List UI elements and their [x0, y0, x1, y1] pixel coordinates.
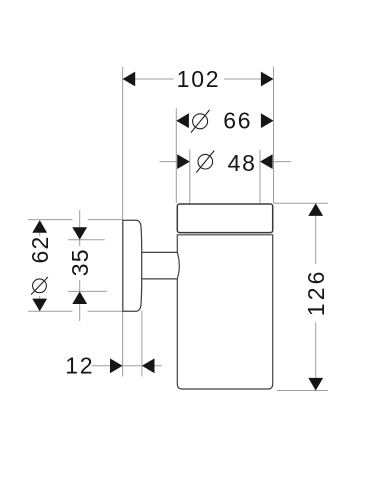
cup holder ring [177, 204, 272, 233]
extension line 102/66 right [273, 67, 275, 203]
extension line 48 left [189, 150, 191, 203]
extension line 126 bottom [277, 390, 328, 392]
dimension 12 [65, 311, 162, 379]
svg-text:66: 66 [223, 108, 252, 134]
dimension diameter 48 [160, 150, 292, 176]
dimension diameter 62 [27, 220, 53, 311]
svg-text:102: 102 [177, 66, 221, 92]
svg-text:126: 126 [303, 268, 329, 316]
extension line 66 left [175, 108, 177, 203]
svg-text:62: 62 [27, 236, 53, 264]
wall plate [123, 220, 142, 311]
svg-text:12: 12 [65, 353, 94, 379]
extension line 62 bottom [28, 310, 122, 312]
extension line 62 top [28, 219, 122, 221]
reference line 35 bottom [68, 290, 107, 292]
extension line 48 right [259, 150, 261, 203]
dimension 102 [123, 66, 274, 92]
arm [141, 252, 180, 279]
dimension 35 [67, 210, 93, 321]
svg-text:48: 48 [228, 150, 257, 176]
dimension 126 [303, 203, 329, 390]
svg-text:35: 35 [67, 248, 93, 276]
reference line 35 top [68, 239, 105, 241]
dimension diameter 66 [176, 108, 273, 134]
extension line 126 top [274, 202, 329, 204]
cup body [177, 235, 272, 389]
extension line 102 left [122, 67, 124, 220]
